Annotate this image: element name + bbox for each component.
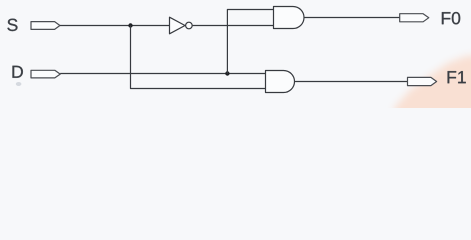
input pin S — [31, 22, 60, 30]
wire S pin to NOT gate — [60, 25, 170, 27]
wire AND2 output to pin F1 — [295, 81, 408, 83]
faint smudge below D label — [16, 82, 22, 86]
inverter U1 bubble — [186, 22, 193, 29]
wire AND1 output to pin F0 — [304, 17, 400, 19]
node F1 label — [448, 71, 466, 83]
output pin F0 — [400, 14, 429, 22]
wire NOT output to AND1 lower input — [193, 25, 274, 27]
wire D branch up to AND1 upper input — [227, 10, 273, 74]
input pin D — [31, 70, 60, 78]
node F0 label — [442, 12, 460, 24]
node S label — [7, 19, 17, 31]
wire S branch down to AND2 lower input — [131, 26, 266, 89]
junction D branch — [225, 71, 229, 75]
AND gate U3 (F1) — [266, 71, 295, 93]
inverter U1 triangle — [170, 17, 186, 34]
output pin F1 — [408, 77, 437, 85]
junction S branch — [128, 23, 132, 27]
node D label — [13, 66, 23, 78]
wire D pin to AND2 upper input — [60, 73, 265, 75]
decorative peach corner — [394, 50, 471, 240]
AND gate U2 (F0) — [274, 7, 305, 29]
